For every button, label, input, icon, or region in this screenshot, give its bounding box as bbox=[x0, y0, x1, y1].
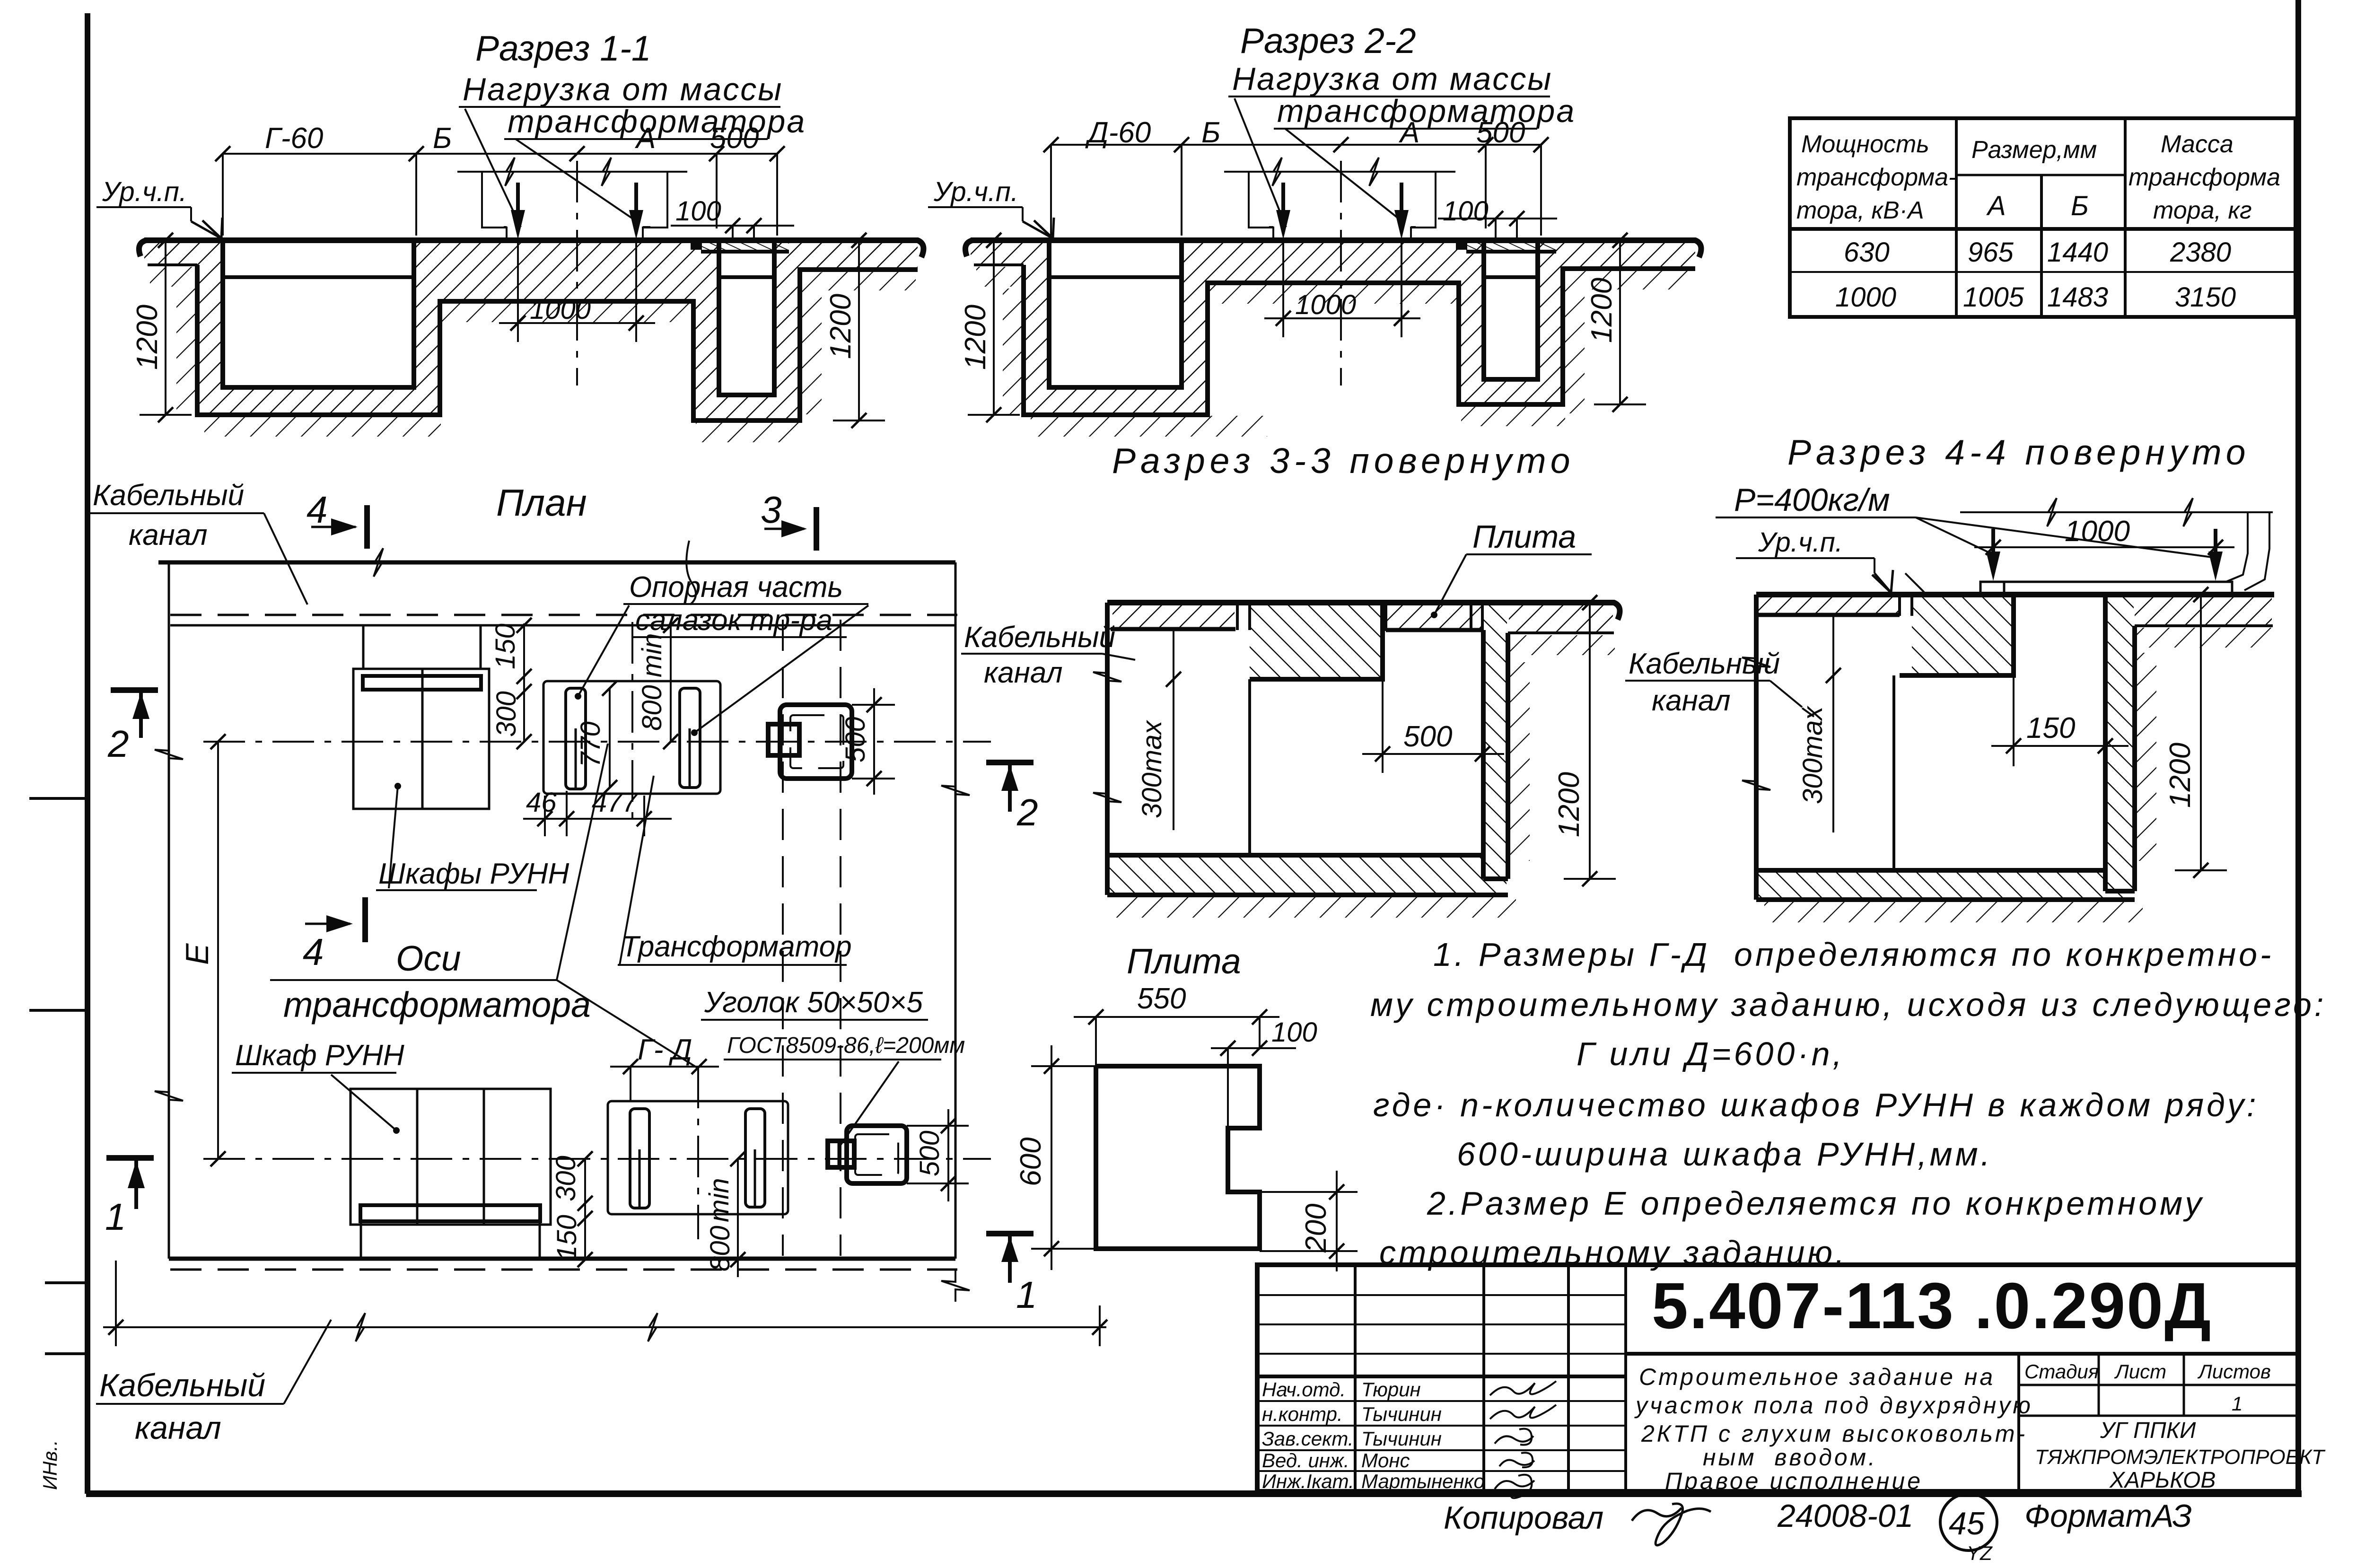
right pit inner ledge line bbox=[1484, 275, 1538, 279]
svg-text:Кабельный: Кабельный bbox=[1629, 648, 1780, 680]
wavy reference line from top wall bbox=[686, 541, 696, 604]
3-3 dimension 1200 bbox=[1553, 595, 1616, 886]
hatched concrete: right pit bottom slab bbox=[719, 395, 774, 420]
4-4 support plate bbox=[1980, 582, 2232, 595]
drawing frame bottom border bbox=[86, 1490, 2302, 1497]
svg-text:1200: 1200 bbox=[1553, 772, 1585, 837]
svg-text:150: 150 bbox=[552, 1215, 582, 1261]
hatched concrete: left pit bottom slab bbox=[1049, 387, 1182, 415]
dimensions 46 / 477 bbox=[523, 787, 672, 836]
4-4 load arrow right bbox=[2214, 529, 2217, 565]
4-4 load arrow left bbox=[1991, 529, 1995, 565]
4-4 left edge break marks bbox=[1742, 646, 1770, 678]
svg-text:Листов: Листов bbox=[2197, 1360, 2271, 1383]
soil hatching under right ground slab bbox=[822, 271, 916, 290]
label Кабельный канал (left of 3-3) bbox=[961, 621, 1135, 689]
hatched concrete: floor strip left of pit bbox=[971, 242, 1024, 265]
rails centre axis (top row, dash-dot) bbox=[631, 622, 633, 823]
floor surface line bbox=[965, 240, 1701, 257]
svg-text:5.407-113 .0.290Д: 5.407-113 .0.290Д bbox=[1652, 1270, 2212, 1342]
hatched concrete: wall between left pit and central slab bbox=[1182, 240, 1208, 415]
svg-text:А: А bbox=[634, 122, 656, 155]
svg-text:ΥΖ: ΥΖ bbox=[1967, 1542, 1993, 1564]
label Шкаф РУНН with leader bbox=[232, 1039, 404, 1134]
svg-text:550: 550 bbox=[1137, 982, 1186, 1015]
3-3 cover plate right bottom line bbox=[1386, 628, 1483, 632]
svg-text:1000: 1000 bbox=[2065, 515, 2130, 548]
soil hatching under left pit bottom bbox=[204, 416, 441, 437]
4-4 floor level mark Ур.ч.п. bbox=[1736, 527, 1924, 593]
svg-text:Инж.Iкат.: Инж.Iкат. bbox=[1262, 1470, 1354, 1492]
svg-text:Оси: Оси bbox=[396, 938, 461, 978]
svg-text:салазок тр-ра: салазок тр-ра bbox=[635, 604, 832, 637]
svg-text:Разрез 4-4 повернуто: Разрез 4-4 повернуто bbox=[1787, 432, 2251, 472]
4-4 dimension 300max bbox=[1797, 615, 1841, 832]
hatched concrete: ground slab right of pit bbox=[800, 240, 918, 270]
svg-text:3150: 3150 bbox=[2175, 282, 2236, 313]
hatched concrete: floor strip left of pit bbox=[144, 242, 197, 265]
svg-text:Разрез 3-3 повернуто: Разрез 3-3 повернуто bbox=[1112, 441, 1575, 481]
dimension 150/300 (top row) bbox=[490, 618, 532, 749]
svg-text:участок пола под двухрядную: участок пола под двухрядную bbox=[1634, 1392, 2033, 1419]
svg-text:Е: Е bbox=[179, 943, 215, 965]
svg-text:тора, кг: тора, кг bbox=[2153, 197, 2252, 224]
svg-text:Трансформатор: Трансформатор bbox=[621, 930, 852, 963]
rails support group (bottom row) bbox=[608, 1101, 788, 1214]
right pit interior outline bbox=[719, 240, 774, 395]
svg-text:1: 1 bbox=[105, 1196, 126, 1238]
plate outline with notch bbox=[1096, 1066, 1260, 1249]
svg-text:канал: канал bbox=[984, 657, 1063, 689]
dimension 300/150 (bottom row) bbox=[551, 1151, 593, 1267]
label Кабельный канал (bottom left) with leader bbox=[96, 1320, 331, 1446]
dimension 200 bbox=[1260, 1171, 1358, 1271]
hatched concrete: wall between left pit and central slab bbox=[414, 240, 440, 415]
svg-text:500: 500 bbox=[1476, 116, 1525, 149]
section marker 3 (top) bbox=[761, 489, 816, 551]
описание задания text bbox=[1634, 1364, 2033, 1494]
svg-text:Правое исполнение: Правое исполнение bbox=[1665, 1468, 1923, 1494]
soil hatching along left pit outer wall bbox=[1003, 289, 1024, 415]
right pit interior outline bbox=[1484, 240, 1538, 379]
4-4 inner wall below mass bbox=[1892, 675, 1895, 870]
cover plate over right pit bbox=[1456, 239, 1556, 252]
dimension 800 min (bottom row) bbox=[704, 1151, 745, 1277]
4-4 soil under right ground slab bbox=[2136, 628, 2272, 648]
dimension 100 bbox=[671, 196, 794, 238]
svg-text:100: 100 bbox=[1443, 196, 1489, 227]
svg-text:4: 4 bbox=[307, 489, 328, 531]
section marker 4 (top) bbox=[307, 489, 367, 549]
4-4 floor line bbox=[1756, 592, 2274, 597]
3-3 left edge wall line bbox=[1105, 603, 1110, 895]
svg-text:1000: 1000 bbox=[530, 294, 591, 325]
section marker 2 (right) bbox=[986, 762, 1038, 833]
section marker 4 (bottom) bbox=[303, 897, 365, 973]
3-3 soil under right ground slab bbox=[1510, 635, 1615, 655]
4-4 hatch: central concrete mass bbox=[1912, 596, 2013, 675]
svg-text:Кабельный: Кабельный bbox=[93, 479, 244, 512]
svg-text:965: 965 bbox=[1968, 237, 2014, 268]
svg-text:300max: 300max bbox=[1137, 720, 1167, 818]
svg-text:тора, кВ·А: тора, кВ·А bbox=[1796, 197, 1924, 224]
left pit inner ledge line bbox=[223, 275, 414, 279]
title block vertical dividers (left part) bbox=[1355, 1265, 1626, 1491]
section marker 2 (left) bbox=[107, 690, 158, 765]
plan right boundary bbox=[941, 562, 970, 1302]
svg-text:1200: 1200 bbox=[959, 305, 992, 370]
drawing frame right border bbox=[2295, 0, 2301, 1494]
transformer axis row 2 (dash-dot) bbox=[203, 1158, 991, 1160]
svg-text:ГОСТ8509-86,ℓ=200мм: ГОСТ8509-86,ℓ=200мм bbox=[727, 1033, 965, 1058]
4-4 left edge wall line bbox=[1754, 595, 1759, 900]
svg-text:500: 500 bbox=[840, 717, 871, 762]
soil hatching under central slab bbox=[1210, 284, 1456, 304]
soil hatching under right pit bbox=[1461, 405, 1565, 426]
plan bottom cable channel hidden edge (dashed) bbox=[170, 1269, 957, 1271]
dimension 800 min (top row) bbox=[637, 618, 678, 749]
3-3 right ground slab bottom edge bbox=[1508, 631, 1614, 634]
svg-text:2380: 2380 bbox=[2170, 237, 2231, 268]
svg-text:500: 500 bbox=[710, 122, 759, 155]
svg-text:1. Размеры Г-Д определяются п: 1. Размеры Г-Д определяются по конкретно… bbox=[1433, 936, 2274, 973]
svg-text:Плита: Плита bbox=[1472, 519, 1576, 555]
svg-text:Тычинин: Тычинин bbox=[1361, 1403, 1442, 1425]
left pit outer profile bbox=[1024, 265, 1695, 415]
dimension 770 (rail length) bbox=[575, 681, 617, 795]
3-3 soil under bottom slab bbox=[1116, 897, 1516, 918]
plan left boundary bbox=[155, 562, 183, 1259]
load arrow left bbox=[1281, 183, 1285, 223]
svg-text:Уголок 50×50×5: Уголок 50×50×5 bbox=[704, 986, 923, 1019]
title block outer frame bbox=[1257, 1265, 2298, 1491]
transformer centre axis bbox=[576, 161, 578, 385]
svg-text:ХАРЬКОВ: ХАРЬКОВ bbox=[2109, 1468, 2216, 1493]
svg-text:Масса: Масса bbox=[2161, 131, 2234, 158]
svg-text:477: 477 bbox=[592, 787, 639, 818]
svg-text:Кабельный: Кабельный bbox=[99, 1367, 265, 1403]
стадия header texts bbox=[2024, 1360, 2271, 1415]
4-4 hatch: cover plate left bbox=[1758, 597, 1899, 614]
4-4 cover plate bottom line bbox=[1756, 613, 1900, 617]
3-3 left edge break marks bbox=[1093, 661, 1121, 693]
table header texts bbox=[1796, 131, 2280, 224]
thin soil line left of pit bbox=[148, 263, 197, 266]
label Кабельный канал (top left) bbox=[90, 479, 307, 604]
svg-text:800 min: 800 min bbox=[637, 633, 667, 731]
svg-text:1000: 1000 bbox=[1295, 289, 1356, 320]
dimension E (left) bbox=[179, 734, 226, 1166]
dimension 1200 right bbox=[1585, 233, 1646, 412]
3-3 hatch: right ground slab bbox=[1509, 604, 1613, 632]
svg-text:му строительному заданию, исхо: му строительному заданию, исходя из след… bbox=[1370, 986, 2326, 1023]
svg-text:Монс: Монс bbox=[1361, 1449, 1410, 1472]
svg-text:1000: 1000 bbox=[1835, 282, 1896, 313]
hatched concrete: central floor slab bbox=[440, 240, 693, 301]
svg-text:Зав.сект.: Зав.сект. bbox=[1262, 1428, 1354, 1450]
label Уголок 50х50х5 ГОСТ8509-86 bbox=[701, 986, 965, 1148]
dimension 1000 between load points bbox=[499, 240, 655, 342]
3-3 hatch: cover plate left bbox=[1112, 605, 1235, 628]
svg-text:Ур.ч.п.: Ур.ч.п. bbox=[933, 176, 1018, 207]
svg-text:4: 4 bbox=[303, 931, 324, 973]
svg-text:канал: канал bbox=[1652, 684, 1731, 717]
left pit inner ledge line bbox=[1049, 275, 1182, 279]
svg-text:трансформа: трансформа bbox=[2128, 164, 2280, 191]
soil hatching under left floor strip bbox=[150, 267, 197, 287]
стадия/лист/листов grid bbox=[2019, 1354, 2298, 1416]
svg-text:Г-60: Г-60 bbox=[265, 122, 323, 155]
hidden channel edges through transformers (dashed) bbox=[783, 620, 841, 1256]
soil hatching right of right pit wall bbox=[801, 272, 822, 414]
floor level mark Ур.ч.п. bbox=[96, 176, 222, 238]
3-3 dimension 500 bbox=[1362, 681, 1504, 773]
soil hatching under central slab bbox=[442, 302, 691, 322]
svg-text:100: 100 bbox=[1271, 1017, 1317, 1048]
svg-text:600: 600 bbox=[1015, 1138, 1047, 1186]
svg-text:н.контр.: н.контр. bbox=[1262, 1403, 1343, 1425]
signature column names bbox=[1262, 1378, 1485, 1492]
svg-text:Кабельный: Кабельный bbox=[964, 621, 1115, 654]
3-3 floor line bbox=[1107, 603, 1620, 620]
svg-text:3: 3 bbox=[761, 489, 782, 531]
svg-text:800: 800 bbox=[705, 1226, 736, 1271]
description box divider bbox=[2017, 1354, 2020, 1491]
4-4 soil right of wall bbox=[2136, 653, 2156, 861]
signature squiggles bbox=[1490, 1381, 1556, 1498]
svg-text:Шкафы РУНН: Шкафы РУНН bbox=[378, 858, 569, 890]
hatched concrete: right pit left wall bbox=[693, 240, 719, 420]
load arrow right bbox=[634, 183, 638, 223]
load label "Нагрузка от массы трансформатора" bbox=[459, 71, 806, 227]
label Кабельный канал (between 3-3 and 4-4) bbox=[1625, 648, 1814, 717]
cabinets Шкаф РУНН (bottom row) bbox=[350, 1089, 551, 1260]
svg-text:Тюрин: Тюрин bbox=[1361, 1378, 1421, 1401]
transformer (top row) bbox=[768, 705, 852, 779]
копировал signature bbox=[1632, 1504, 1711, 1545]
thin soil line left of pit bbox=[974, 263, 1024, 266]
svg-text:Ур.ч.п.: Ур.ч.п. bbox=[1758, 527, 1843, 558]
4-4 hatch: right wall bbox=[2106, 596, 2134, 890]
svg-text:2.Размер Е определяется по кон: 2.Размер Е определяется по конкретному bbox=[1427, 1185, 2204, 1222]
plan bottom wall edge bbox=[169, 1257, 955, 1261]
3-3 rebate ticks left plate bbox=[1237, 604, 1250, 630]
hatched concrete: central floor slab bbox=[1208, 240, 1459, 283]
svg-text:46: 46 bbox=[526, 787, 557, 818]
hatched concrete: left pit left wall bbox=[1024, 242, 1049, 415]
svg-text:770: 770 bbox=[575, 721, 606, 767]
4-4 rebate ticks bbox=[1900, 596, 1912, 616]
hatched concrete: left pit left wall bbox=[197, 242, 223, 415]
4-4 bottom slab edges bbox=[1756, 870, 2135, 900]
svg-text:min: min bbox=[704, 1178, 735, 1222]
организация text bbox=[2035, 1418, 2326, 1493]
section marker 1 (left) bbox=[105, 1158, 154, 1238]
plan top cable channel hidden edge (dashed) bbox=[170, 614, 957, 616]
hatched concrete: right pit right wall bbox=[1538, 240, 1563, 404]
label Шкафы РУНН with leader bbox=[376, 783, 569, 890]
hatched concrete: right pit left wall bbox=[1459, 240, 1484, 404]
svg-text:600-ширина шкафа РУНН,мм.: 600-ширина шкафа РУНН,мм. bbox=[1457, 1136, 1993, 1173]
dimension 1200 right bbox=[824, 233, 885, 428]
svg-text:300: 300 bbox=[491, 691, 522, 737]
soil hatching under right ground slab bbox=[1585, 270, 1693, 289]
floor surface line bbox=[139, 240, 924, 257]
overall bottom dimension line bbox=[103, 1261, 1107, 1346]
svg-text:Ур.ч.п.: Ур.ч.п. bbox=[102, 176, 187, 207]
svg-text:1200: 1200 bbox=[131, 305, 164, 370]
svg-text:Д-60: Д-60 bbox=[1085, 116, 1151, 149]
dimension 1200 left bbox=[959, 233, 1020, 422]
binding tick marks on left margin bbox=[29, 798, 87, 1354]
soil hatching right of right pit wall bbox=[1564, 272, 1585, 413]
4-4 dimension 150 bbox=[1991, 677, 2128, 766]
left pit interior outline bbox=[1049, 240, 1182, 387]
svg-text:1200: 1200 bbox=[1585, 278, 1618, 343]
4-4 right ground slab bottom edge bbox=[2135, 624, 2273, 627]
svg-text:Стадия: Стадия bbox=[2024, 1360, 2099, 1383]
3-3 cover plate left bottom line bbox=[1111, 627, 1235, 631]
svg-text:Мощность: Мощность bbox=[1801, 131, 1929, 158]
svg-text:Г- Д: Г- Д bbox=[638, 1034, 692, 1066]
label P=400 кг/м with leaders bbox=[1716, 482, 2212, 557]
svg-text:1200: 1200 bbox=[824, 294, 857, 359]
svg-text:1200: 1200 bbox=[2164, 743, 2197, 808]
svg-text:2: 2 bbox=[1016, 791, 1038, 833]
table data rows bbox=[1835, 237, 2236, 313]
hatched concrete: ground slab right of pit bbox=[1563, 240, 1695, 269]
3-3 right wall edges bbox=[1483, 630, 1508, 879]
svg-text:1440: 1440 bbox=[2047, 237, 2108, 268]
dimension 500 (bottom transformer) bbox=[907, 1109, 969, 1201]
dimension 100 bbox=[1211, 1017, 1317, 1128]
drawing frame left border bbox=[85, 13, 90, 1494]
svg-text:канал: канал bbox=[129, 519, 208, 552]
svg-text:150: 150 bbox=[490, 623, 521, 669]
load label "Нагрузка от массы трансформатора" bbox=[1228, 61, 1576, 227]
label Трансформатор bbox=[618, 776, 852, 965]
svg-text:1005: 1005 bbox=[1963, 282, 2024, 313]
svg-text:500: 500 bbox=[1403, 720, 1452, 753]
floor level mark Ур.ч.п. bbox=[928, 176, 1054, 238]
transformer axis row 1 (dash-dot) bbox=[203, 741, 991, 743]
soil hatching under left pit bottom bbox=[1031, 416, 1267, 437]
svg-text:100: 100 bbox=[675, 196, 721, 227]
soil hatching under right pit bbox=[696, 421, 802, 442]
svg-text:200: 200 bbox=[1300, 1204, 1332, 1253]
cabinets ШкафыРУНН (top row) bbox=[353, 625, 489, 809]
svg-text:Нач.отд.: Нач.отд. bbox=[1262, 1378, 1346, 1401]
svg-text:Б: Б bbox=[1201, 116, 1220, 149]
top dimension line (Д-60 / Б / А / 500) bbox=[1043, 116, 1549, 236]
svg-text:УГ ППКИ: УГ ППКИ bbox=[2100, 1418, 2196, 1443]
3-3 bottom slab edges bbox=[1107, 855, 1508, 895]
svg-text:А: А bbox=[1986, 191, 2006, 221]
transformer support bracket outline bbox=[1224, 158, 1455, 238]
4-4 dimension 1000 bbox=[1974, 515, 2234, 555]
svg-text:Размер,мм: Размер,мм bbox=[1971, 136, 2097, 164]
sheet number circle 45 bbox=[1940, 1494, 1997, 1550]
svg-text:Вед. инж.: Вед. инж. bbox=[1262, 1449, 1349, 1472]
rails support group (top row) bbox=[543, 681, 720, 794]
dimension 1000 between load points bbox=[1264, 240, 1420, 337]
section marker 1 (right) bbox=[986, 1234, 1037, 1316]
soil hatching under left floor strip bbox=[976, 267, 1024, 287]
4-4 hatch: right ground slab bbox=[2135, 596, 2272, 625]
cover plate over right pit bbox=[691, 239, 789, 252]
plan top wall edge bbox=[158, 548, 955, 577]
svg-text:1: 1 bbox=[1016, 1274, 1037, 1316]
4-4 dimension 1200 bbox=[2164, 587, 2227, 878]
svg-text:Шкаф РУНН: Шкаф РУНН bbox=[235, 1039, 404, 1072]
svg-text:1483: 1483 bbox=[2047, 282, 2108, 313]
svg-text:45: 45 bbox=[1949, 1506, 1985, 1542]
dimension Г-Д bbox=[610, 1034, 719, 1102]
svg-text:Плита: Плита bbox=[1127, 941, 1241, 981]
load arrow left bbox=[516, 183, 520, 223]
dimension 600 bbox=[1015, 1045, 1096, 1270]
svg-text:Опорная часть: Опорная часть bbox=[629, 571, 843, 604]
svg-text:Разрез 1-1: Разрез 1-1 bbox=[475, 28, 651, 68]
label Плита with leader bbox=[1431, 519, 1592, 618]
svg-text:Б: Б bbox=[2071, 191, 2089, 221]
3-3 hatch: bottom foundation slab bbox=[1109, 857, 1507, 893]
4-4 right wall edges bbox=[2105, 595, 2135, 891]
3-3 hatch: cover plate right bbox=[1387, 605, 1481, 628]
svg-text:300: 300 bbox=[551, 1156, 581, 1201]
svg-text:Тычинин: Тычинин bbox=[1361, 1428, 1442, 1450]
plan top cable channel near edge bbox=[170, 624, 955, 627]
right pit inner ledge line bbox=[719, 275, 774, 279]
3-3 inner wall below mass bbox=[1248, 679, 1251, 855]
svg-text:трансформатора: трансформатора bbox=[283, 985, 591, 1025]
load arrow right bbox=[1400, 183, 1403, 223]
svg-text:Б: Б bbox=[433, 122, 452, 155]
4-4 hatch: bottom foundation slab bbox=[1758, 872, 2134, 899]
transformer support bracket outline bbox=[457, 158, 687, 238]
dimension 100 bbox=[1438, 196, 1557, 238]
svg-text:Нагрузка от массы: Нагрузка от массы bbox=[463, 71, 783, 107]
dimension 550 bbox=[1074, 982, 1279, 1066]
svg-text:630: 630 bbox=[1844, 237, 1890, 268]
svg-text:где· n-количество шкафов РУНН: где· n-количество шкафов РУНН в каждом р… bbox=[1373, 1086, 2259, 1123]
title block row lines (left part) bbox=[1257, 1295, 1626, 1471]
svg-text:2КТП с глухим высоковольт-: 2КТП с глухим высоковольт- bbox=[1641, 1420, 2027, 1447]
svg-text:План: План bbox=[496, 482, 587, 524]
svg-text:Лист: Лист bbox=[2114, 1360, 2166, 1383]
svg-text:Разрез 2-2: Разрез 2-2 bbox=[1240, 21, 1416, 61]
svg-text:ным вводом.: ным вводом. bbox=[1703, 1444, 1877, 1471]
transformer (bottom row) bbox=[828, 1126, 907, 1183]
svg-text:500: 500 bbox=[914, 1130, 945, 1176]
svg-text:канал: канал bbox=[135, 1410, 221, 1446]
top dimension line (Г-60 / Б / А / 500) bbox=[215, 122, 785, 236]
svg-text:Нагрузка от массы: Нагрузка от массы bbox=[1232, 61, 1552, 97]
svg-text:ТЯЖПРОМЭЛЕКТРОПРОЕКТ: ТЯЖПРОМЭЛЕКТРОПРОЕКТ bbox=[2035, 1445, 2326, 1469]
svg-text:24008-01: 24008-01 bbox=[1777, 1498, 1913, 1534]
table grid bbox=[1790, 118, 2295, 317]
svg-text:Г или Д=600·n,: Г или Д=600·n, bbox=[1577, 1035, 1845, 1072]
4-4 central mass outline bbox=[1900, 596, 2014, 675]
soil hatching along left pit outer wall bbox=[176, 289, 197, 415]
3-3 soil right of wall bbox=[1509, 662, 1530, 861]
label Опорная часть салазок тр-ра bbox=[575, 571, 868, 736]
rails centre axis (bottom row, dash-dot) bbox=[697, 1067, 699, 1239]
hatched concrete: right pit bottom slab bbox=[1484, 379, 1538, 404]
svg-text:2: 2 bbox=[107, 723, 129, 765]
transformer centre axis bbox=[1340, 161, 1342, 385]
svg-text:300max: 300max bbox=[1797, 706, 1828, 804]
